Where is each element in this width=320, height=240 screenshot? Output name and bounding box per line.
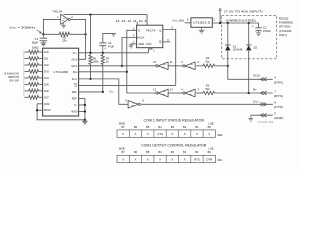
- svg-text:LT1021-5: LT1021-5: [193, 21, 211, 25]
- svg-text:VOUT (5V): VOUT (5V): [172, 19, 184, 23]
- svg-text:B5: B5: [146, 125, 150, 129]
- wire DGND branch: [37, 109, 43, 111]
- svg-text:(UNREGULATED): (UNREGULATED): [226, 18, 256, 22]
- wire SCLK: [79, 65, 156, 67]
- svg-text:B0: B0: [208, 125, 212, 129]
- svg-text:CH0: CH0: [44, 50, 49, 54]
- svg-text:LTC1290 • F03: LTC1290 • F03: [258, 122, 274, 124]
- wire REF+: [79, 91, 103, 93]
- ground (C2): [256, 32, 261, 34]
- wire U1E to R3: [196, 92, 203, 94]
- inverter U1D: [158, 89, 168, 97]
- node AGND: [84, 110, 86, 112]
- inverter U1C: [185, 62, 195, 70]
- svg-text:B2: B2: [183, 125, 187, 129]
- svg-text:LTC1290: LTC1290: [54, 70, 69, 74]
- svg-text:CTS: CTS: [157, 132, 163, 136]
- resistor R7 1k: [101, 55, 104, 65]
- wire 74C74 GND stub: [131, 44, 137, 45]
- wire 5V drop to VCC pin: [90, 15, 92, 53]
- wire 74C74 Qbar stub: [163, 41, 171, 43]
- svg-text:X: X: [171, 158, 173, 162]
- flip-flop U3 74C74 box: [137, 25, 163, 48]
- wire R3 to RTS: [215, 92, 273, 94]
- svg-text:+: +: [252, 24, 254, 28]
- svg-text:B3: B3: [171, 150, 175, 154]
- ground (LT1021): [199, 29, 205, 31]
- svg-text:51k: 51k: [205, 87, 210, 91]
- resistor R1: [59, 32, 69, 36]
- svg-text:B4: B4: [158, 125, 162, 129]
- svg-text:CH6: CH6: [44, 89, 49, 93]
- wire REF- V- AGND to ground: [79, 97, 85, 99]
- svg-text:REF−: REF−: [72, 96, 78, 100]
- svg-text:CH1: CH1: [44, 57, 49, 61]
- svg-text:B6: B6: [134, 125, 138, 129]
- svg-text:LSB: LSB: [209, 146, 214, 150]
- svg-text:D: D: [138, 28, 140, 32]
- svg-text:CH3: CH3: [44, 69, 49, 73]
- node SCLK/CLK: [121, 65, 123, 67]
- svg-text:CH5: CH5: [44, 82, 49, 86]
- svg-text:X: X: [159, 158, 161, 162]
- capacitor C1: [42, 34, 44, 38]
- svg-text:REF+: REF+: [72, 90, 78, 94]
- svg-text:X: X: [122, 158, 124, 162]
- inverter U1F: [128, 101, 138, 109]
- svg-text:B6: B6: [134, 150, 138, 154]
- wire SCLK to DTR: [228, 66, 273, 79]
- ground (connector): [250, 115, 252, 118]
- node (5V rail feed): [89, 13, 91, 15]
- svg-text:CLK: CLK: [139, 36, 144, 40]
- wire R1 feedback: [43, 33, 59, 35]
- svg-text:RTS: RTS: [194, 158, 200, 162]
- ground (C1): [41, 42, 46, 44]
- diode D2 1N4148: [248, 23, 250, 45]
- svg-text:50pF: 50pF: [32, 40, 39, 44]
- data direction arrows (RTS): [260, 91, 263, 95]
- svg-text:1N4148: 1N4148: [233, 48, 243, 52]
- svg-text:B5: B5: [146, 150, 150, 154]
- resistor network 10k (8x CH0-CH7): [25, 51, 29, 53]
- svg-text:ONLY): ONLY): [279, 33, 287, 37]
- svg-text:10kΩ: 10kΩ: [32, 45, 39, 49]
- wire U1D-U1E: [168, 92, 184, 94]
- node DIN/D: [126, 71, 128, 73]
- ground (74C74): [129, 44, 134, 46]
- data direction arrows (GND): [260, 113, 263, 117]
- wire tied pins stub: [136, 22, 138, 25]
- wire DOUT to CTS: [141, 103, 273, 105]
- svg-text:3FC: 3FC: [217, 158, 222, 162]
- wire unregulated rail: [212, 23, 258, 28]
- svg-text:CLR: CLR: [146, 42, 151, 46]
- svg-text:74C74: 74C74: [146, 28, 156, 32]
- input bus bracket: [23, 51, 25, 97]
- wire R2 to DTR node: [215, 65, 228, 67]
- resistor R6 100k: [89, 55, 92, 65]
- svg-text:X: X: [208, 132, 210, 136]
- svg-text:X: X: [171, 132, 173, 136]
- svg-text:(GND): (GND): [274, 116, 284, 120]
- node VCC/R6: [89, 52, 91, 54]
- node VIN/terminal: [219, 22, 221, 24]
- svg-text:CH7: CH7: [44, 95, 49, 99]
- svg-text:COM 1 INPUT STATUS REGULATOR: COM 1 INPUT STATUS REGULATOR: [144, 119, 205, 123]
- svg-text:+: +: [104, 46, 106, 50]
- svg-text:MSB: MSB: [119, 146, 125, 150]
- svg-text:B7: B7: [122, 150, 126, 154]
- svg-text:X: X: [147, 132, 149, 136]
- svg-text:74C14: 74C14: [52, 10, 62, 14]
- svg-text:DTR: DTR: [206, 158, 212, 162]
- svg-text:0V–5V: 0V–5V: [10, 79, 20, 83]
- svg-text:22k: 22k: [62, 39, 67, 43]
- svg-text:B7: B7: [122, 125, 126, 129]
- wire DOUT: [79, 79, 129, 104]
- node VIN/D1: [227, 22, 229, 24]
- wire U1A input: [43, 19, 60, 34]
- svg-text:X: X: [135, 132, 137, 136]
- wire DIN: [79, 71, 127, 73]
- svg-text:B1: B1: [195, 150, 199, 154]
- svg-text:CH2: CH2: [44, 63, 49, 67]
- node V-: [84, 104, 86, 106]
- node R7/REF+: [102, 91, 104, 93]
- svg-text:100k: 100k: [93, 59, 100, 63]
- svg-text:D1: D1: [233, 44, 237, 48]
- inverter U1E: [185, 89, 195, 97]
- node A (osc input): [42, 33, 44, 35]
- svg-text:DGND: DGND: [44, 108, 51, 112]
- svg-text:14, 13, 12, 11, 10, 4: 14, 13, 12, 11, 10, 4: [116, 19, 147, 23]
- wire 74C74 CLK to SCLK: [122, 38, 137, 66]
- node ground junction: [84, 119, 86, 121]
- wire GND terminal: [251, 114, 273, 116]
- node (R1 to output): [84, 33, 86, 35]
- svg-text:COM: COM: [44, 102, 50, 106]
- node VCC/R7/C4: [102, 52, 104, 54]
- svg-text:Q: Q: [159, 28, 161, 32]
- wire fOSC label arrow: [36, 30, 40, 33]
- ground (C4): [111, 32, 116, 34]
- ground (U1A): [63, 22, 65, 25]
- svg-text:(CTS): (CTS): [274, 105, 283, 109]
- svg-text:ACLK: ACLK: [71, 57, 77, 61]
- svg-text:B3: B3: [171, 125, 175, 129]
- dashed box RS232 powered option: [222, 15, 277, 59]
- wire +5V top rail: [63, 15, 147, 26]
- svg-text:X: X: [135, 158, 137, 162]
- svg-text:X: X: [147, 158, 149, 162]
- wire 74C74 CLR to VCC rail: [149, 48, 152, 53]
- wire COM/DGND ground return: [37, 104, 85, 120]
- node input terminal: [219, 9, 221, 11]
- svg-text:D2: D2: [254, 46, 258, 50]
- svg-text:(RTS): (RTS): [274, 94, 283, 98]
- inverter U1A (oscillator): [61, 14, 69, 24]
- svg-text:AGND: AGND: [71, 109, 77, 113]
- data direction arrows (CTS): [260, 103, 263, 107]
- inverter U1B: [158, 62, 168, 70]
- svg-text:X: X: [184, 132, 186, 136]
- diode D1 1N4148: [227, 23, 229, 45]
- svg-text:SCLK: SCLK: [71, 64, 77, 68]
- resistor R3: [203, 91, 215, 94]
- svg-text:47µF: 47µF: [108, 45, 115, 49]
- ground (analog): [84, 120, 86, 121]
- resistor R2: [203, 64, 215, 67]
- wire LT1021 output stub: [185, 22, 191, 24]
- svg-text:GND: GND: [138, 42, 144, 46]
- capacitor C2 150uF: [255, 27, 262, 29]
- wire U1A output to ACLK: [71, 19, 86, 59]
- svg-text:X: X: [184, 158, 186, 162]
- wire CS: [79, 84, 176, 86]
- node VIN/D2: [248, 22, 250, 24]
- data direction arrows (DTR): [260, 78, 263, 82]
- svg-text:B4: B4: [158, 150, 162, 154]
- svg-text:B2: B2: [183, 150, 187, 154]
- node DGND/COM: [36, 109, 38, 111]
- node D2/DIN: [248, 92, 250, 94]
- svg-text:X: X: [196, 132, 198, 136]
- wire U1B-U1C: [168, 65, 184, 67]
- wire 74C74 Q to CS: [163, 30, 176, 86]
- svg-text:X: X: [122, 132, 124, 136]
- node D1/SCLK: [227, 65, 229, 67]
- svg-text:MSB: MSB: [119, 121, 125, 125]
- wire U1C to R2: [196, 65, 203, 67]
- wire VCC rail: [79, 52, 149, 54]
- wire 74C74 D to DIN: [127, 30, 156, 93]
- svg-text:(7.2V TO 40V INPUT): (7.2V TO 40V INPUT): [224, 10, 263, 14]
- node R6/DOUT: [89, 78, 91, 80]
- svg-text:COM1 OUTPUT CONTROL REGULATOR: COM1 OUTPUT CONTROL REGULATOR: [141, 144, 207, 148]
- svg-text:3FE: 3FE: [217, 133, 222, 137]
- wire LT1021 ground: [201, 27, 203, 30]
- op-amp U2 LTC1290 ADC box: [43, 48, 79, 116]
- capacitor C4 47uF: [102, 46, 104, 53]
- svg-text:CH4: CH4: [44, 76, 49, 80]
- svg-text:B1: B1: [195, 125, 199, 129]
- svg-text:SCLK: SCLK: [253, 74, 260, 78]
- svg-text:150µF: 150µF: [263, 29, 271, 33]
- svg-text:51k: 51k: [205, 59, 210, 63]
- svg-text:(DTR): (DTR): [274, 81, 283, 85]
- svg-text:B0: B0: [208, 150, 212, 154]
- svg-text:LSB: LSB: [209, 121, 214, 125]
- regulator U4 LT1021-5 box: [191, 18, 212, 28]
